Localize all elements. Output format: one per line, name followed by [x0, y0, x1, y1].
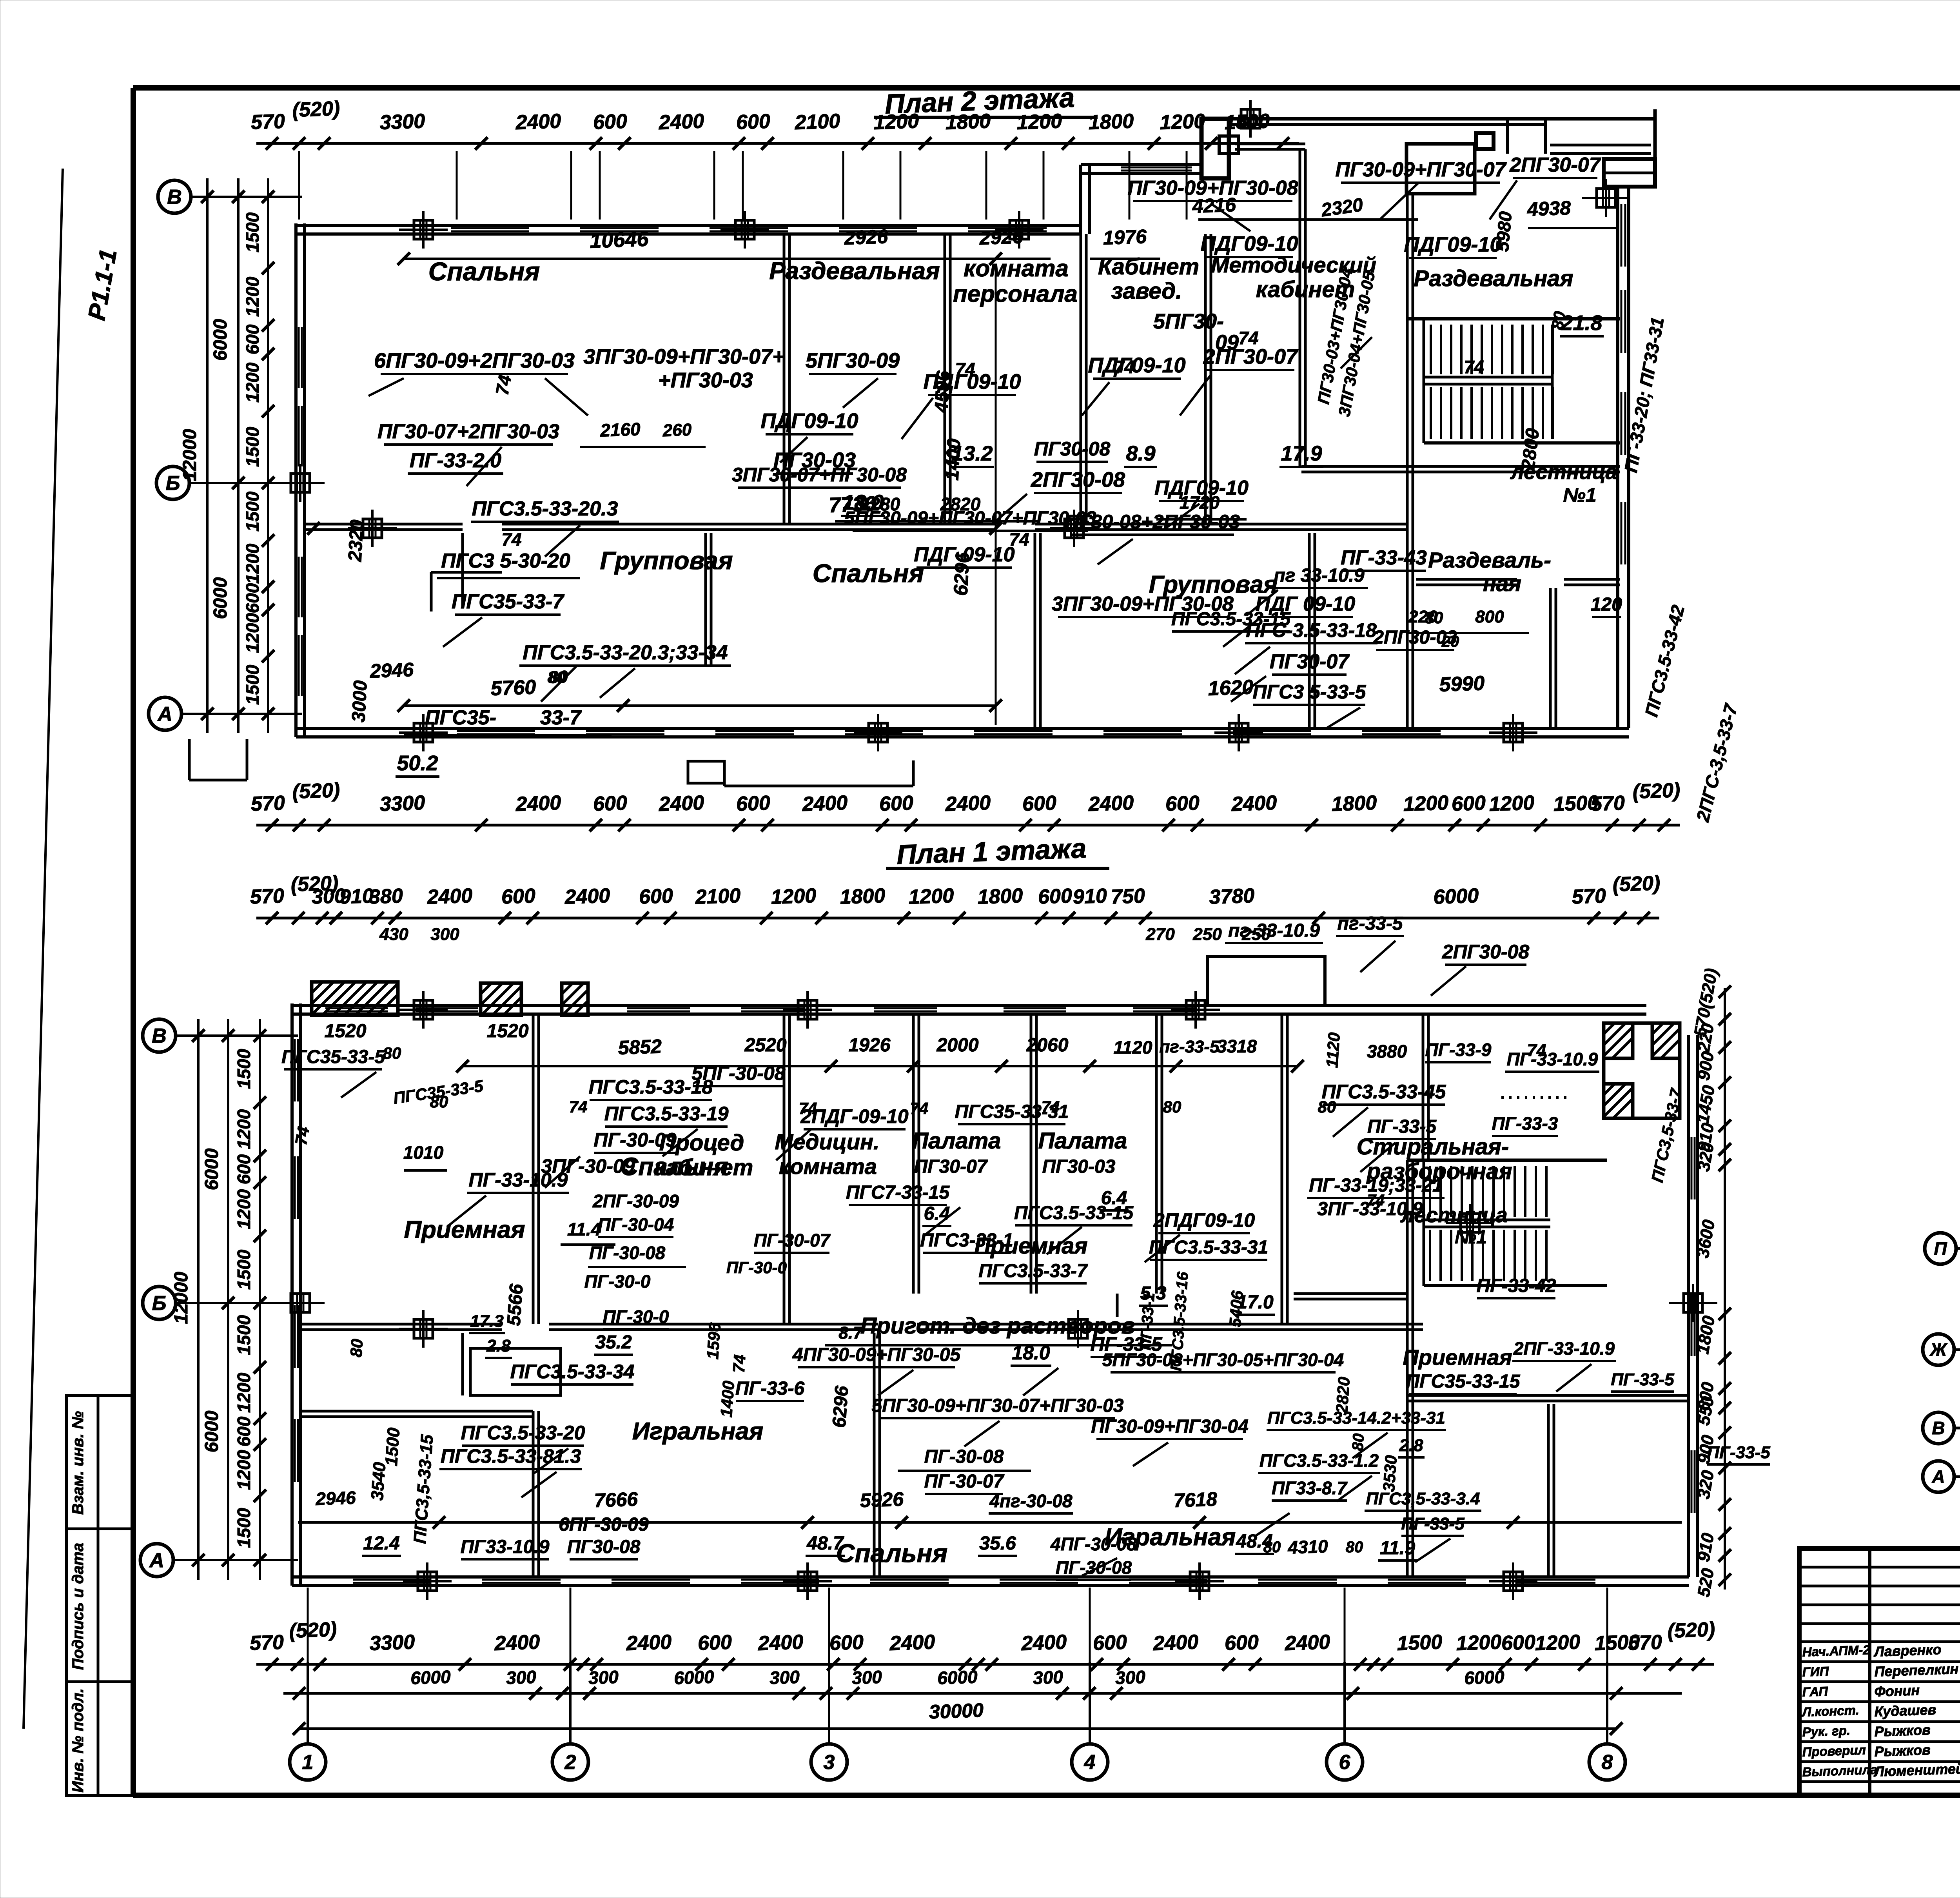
svg-text:1976: 1976 — [1103, 225, 1147, 249]
svg-text:1800: 1800 — [1088, 110, 1134, 134]
svg-text:ПГС35-33-5: ПГС35-33-5 — [281, 1047, 385, 1067]
svg-text:1500: 1500 — [242, 212, 263, 252]
svg-text:ПГС3.5-33-20: ПГС3.5-33-20 — [461, 1422, 585, 1444]
svg-text:20: 20 — [1441, 633, 1459, 650]
svg-text:ПГ-30-08: ПГ-30-08 — [924, 1446, 1004, 1467]
svg-text:Кабинет: Кабинет — [1098, 254, 1199, 279]
svg-text:4938: 4938 — [1526, 197, 1571, 220]
svg-text:ПГ-30-07: ПГ-30-07 — [754, 1230, 831, 1250]
svg-text:1500: 1500 — [242, 426, 263, 467]
svg-text:3ПГ30-07+ПГ30-08: 3ПГ30-07+ПГ30-08 — [732, 464, 907, 486]
svg-text:ная: ная — [1483, 571, 1521, 596]
svg-text:600: 600 — [593, 110, 628, 134]
svg-text:2400: 2400 — [1284, 1631, 1331, 1655]
svg-text:ПГС3.5-33-14.2+33-31: ПГС3.5-33-14.2+33-31 — [1267, 1408, 1445, 1428]
svg-text:5926: 5926 — [860, 1488, 904, 1512]
svg-text:35.2: 35.2 — [595, 1332, 632, 1353]
svg-text:ПГ-30-08: ПГ-30-08 — [1056, 1557, 1132, 1578]
svg-text:250: 250 — [1192, 925, 1222, 944]
svg-text:В: В — [167, 186, 182, 209]
svg-text:ПГ30-07: ПГ30-07 — [914, 1156, 988, 1177]
svg-text:1120: 1120 — [1114, 1037, 1152, 1058]
svg-text:600: 600 — [1165, 792, 1200, 816]
svg-text:13.2: 13.2 — [951, 442, 993, 465]
svg-text:6.4: 6.4 — [924, 1203, 950, 1224]
svg-text:1400: 1400 — [717, 1380, 738, 1418]
svg-text:5ПГ30-: 5ПГ30- — [1153, 310, 1224, 333]
svg-text:ПГ-33-5: ПГ-33-5 — [1611, 1370, 1674, 1389]
svg-text:2100: 2100 — [794, 110, 841, 134]
svg-text:ПГС3.5-33-81.3: ПГС3.5-33-81.3 — [441, 1445, 581, 1467]
svg-text:2400: 2400 — [1021, 1631, 1067, 1655]
svg-text:4ПГ30-09+ПГ30-05: 4ПГ30-09+ПГ30-05 — [792, 1345, 961, 1365]
svg-text:570: 570 — [250, 885, 285, 909]
svg-text:74: 74 — [492, 374, 515, 397]
svg-text:910: 910 — [1073, 885, 1107, 909]
svg-text:Нач.АПМ-2: Нач.АПМ-2 — [1802, 1642, 1871, 1659]
svg-text:12000: 12000 — [180, 429, 200, 481]
svg-text:2400: 2400 — [1231, 791, 1278, 816]
svg-text:1200: 1200 — [1016, 110, 1063, 134]
svg-text:ПГ-30-07: ПГ-30-07 — [924, 1471, 1005, 1492]
svg-text:2400: 2400 — [494, 1631, 541, 1655]
svg-text:Приемная: Приемная — [1403, 1345, 1512, 1370]
svg-text:2400: 2400 — [757, 1631, 804, 1655]
svg-text:Люменштейн: Люменштейн — [1873, 1760, 1960, 1780]
svg-text:750: 750 — [1111, 885, 1145, 909]
svg-text:3880: 3880 — [1367, 1041, 1407, 1062]
svg-text:6.4: 6.4 — [1101, 1188, 1127, 1208]
svg-text:6000: 6000 — [410, 1666, 451, 1688]
svg-text:1720: 1720 — [1180, 492, 1220, 513]
svg-text:2400: 2400 — [802, 791, 848, 816]
svg-text:2000: 2000 — [936, 1035, 979, 1056]
svg-text:1200: 1200 — [234, 1450, 254, 1490]
svg-text:600: 600 — [829, 1631, 864, 1655]
svg-text:(520): (520) — [1632, 779, 1681, 803]
svg-text:пг-33-5: пг-33-5 — [1338, 913, 1403, 934]
svg-text:Ж: Ж — [1929, 1339, 1948, 1360]
svg-text:1200: 1200 — [1456, 1631, 1502, 1655]
svg-text:ПГ-30-0: ПГ-30-0 — [584, 1271, 651, 1292]
svg-text:пг-33-10.9: пг-33-10.9 — [1228, 920, 1320, 941]
svg-text:600: 600 — [234, 1154, 254, 1184]
svg-text:А: А — [1931, 1466, 1945, 1487]
svg-text:3300: 3300 — [369, 1631, 416, 1655]
svg-text:ПГС3 5-30-20: ПГС3 5-30-20 — [441, 550, 570, 572]
svg-text:1520: 1520 — [325, 1021, 367, 1042]
svg-text:8.7: 8.7 — [838, 1323, 864, 1343]
svg-text:33-7: 33-7 — [540, 706, 582, 729]
svg-text:4пг-30-08: 4пг-30-08 — [989, 1491, 1073, 1511]
svg-text:1200: 1200 — [1489, 791, 1535, 816]
svg-text:2400: 2400 — [658, 791, 705, 816]
svg-text:ПГ30-09+ПГ30-04: ПГ30-09+ПГ30-04 — [1091, 1416, 1249, 1437]
svg-text:74: 74 — [1009, 529, 1029, 550]
svg-text:ПГС35-33-7: ПГС35-33-7 — [452, 590, 564, 613]
svg-text:600: 600 — [1022, 792, 1057, 816]
svg-text:Спальня: Спальня — [836, 1539, 947, 1568]
svg-text:Приемная: Приемная — [404, 1216, 525, 1243]
svg-text:ПГ-30-09: ПГ-30-09 — [593, 1129, 676, 1151]
svg-text:2.8: 2.8 — [1399, 1436, 1423, 1455]
svg-text:Проверил: Проверил — [1802, 1742, 1866, 1759]
svg-text:270: 270 — [1145, 925, 1175, 944]
svg-text:ПГ-33-5: ПГ-33-5 — [1707, 1443, 1770, 1462]
svg-text:12000: 12000 — [171, 1272, 192, 1324]
svg-text:Взам. инв. №: Взам. инв. № — [69, 1411, 87, 1515]
svg-text:1500: 1500 — [1397, 1631, 1443, 1655]
svg-text:Рыжков: Рыжков — [1874, 1742, 1931, 1760]
svg-text:5ПГ30-09+ПГ30-07+ПГ30-03: 5ПГ30-09+ПГ30-07+ПГ30-03 — [844, 508, 1096, 529]
svg-text:3ПГ30-09+ПГ30-07+: 3ПГ30-09+ПГ30-07+ — [583, 345, 784, 368]
svg-text:1200: 1200 — [873, 110, 920, 134]
svg-text:1200: 1200 — [242, 613, 263, 653]
svg-text:6000: 6000 — [201, 1148, 222, 1190]
svg-text:74: 74 — [569, 1098, 588, 1116]
svg-text:ПДГ09-10: ПДГ09-10 — [1088, 354, 1185, 377]
svg-text:600: 600 — [234, 1416, 254, 1446]
svg-text:2400: 2400 — [626, 1631, 672, 1655]
svg-text:6296: 6296 — [829, 1385, 852, 1429]
svg-text:ПГС3.5-33-20.3;33-34: ПГС3.5-33-20.3;33-34 — [523, 641, 728, 664]
svg-text:300: 300 — [588, 1667, 619, 1688]
svg-text:ПГ-30-04: ПГ-30-04 — [598, 1214, 674, 1235]
svg-text:74: 74 — [955, 359, 975, 379]
svg-text:пг-33-5: пг-33-5 — [1159, 1037, 1220, 1056]
svg-text:ПГС3.5-33-15: ПГС3.5-33-15 — [1171, 609, 1291, 630]
svg-text:6000: 6000 — [1433, 884, 1479, 909]
svg-text:600: 600 — [593, 792, 628, 816]
svg-text:5406: 5406 — [1226, 1290, 1247, 1328]
svg-text:ПГС35-33-15: ПГС35-33-15 — [1406, 1371, 1521, 1392]
svg-text:430: 430 — [379, 925, 408, 944]
svg-text:2400: 2400 — [1088, 791, 1134, 816]
svg-text:2.8: 2.8 — [486, 1336, 511, 1355]
svg-text:2400: 2400 — [515, 791, 562, 816]
svg-text:1200: 1200 — [234, 1372, 254, 1413]
svg-text:600: 600 — [879, 792, 914, 816]
svg-text:Спальня: Спальня — [428, 257, 540, 286]
svg-text:570: 570 — [1628, 1631, 1662, 1655]
svg-text:5852: 5852 — [618, 1035, 662, 1059]
svg-text:1200: 1200 — [242, 362, 263, 403]
svg-text:комната: комната — [964, 255, 1069, 281]
svg-text:600: 600 — [736, 792, 771, 816]
svg-text:ПГ30-03: ПГ30-03 — [1042, 1156, 1116, 1177]
svg-text:11.9: 11.9 — [1380, 1538, 1415, 1559]
svg-text:74: 74 — [799, 1099, 817, 1118]
svg-text:Раздевальная: Раздевальная — [1414, 266, 1573, 291]
svg-text:8: 8 — [1602, 1751, 1613, 1774]
svg-text:ПДГ-09-10: ПДГ-09-10 — [914, 543, 1014, 566]
svg-text:600: 600 — [1224, 1631, 1259, 1655]
svg-text:18.0: 18.0 — [1012, 1342, 1050, 1364]
svg-text:2ПДГ09-10: 2ПДГ09-10 — [1153, 1209, 1255, 1231]
svg-text:74: 74 — [1042, 1098, 1060, 1116]
svg-text:Выполнила: Выполнила — [1802, 1762, 1878, 1779]
svg-text:6: 6 — [1339, 1751, 1351, 1774]
svg-text:Б: Б — [152, 1292, 167, 1315]
svg-text:Игральная: Игральная — [632, 1418, 764, 1445]
svg-text:2ПГ30-07: 2ПГ30-07 — [1203, 345, 1299, 368]
svg-text:ПГ30-09+ПГ30-07: ПГ30-09+ПГ30-07 — [1336, 158, 1507, 181]
svg-text:1120: 1120 — [1323, 1032, 1343, 1068]
svg-text:1596: 1596 — [703, 1322, 724, 1360]
svg-text:6000: 6000 — [937, 1666, 978, 1688]
svg-text:ПГ-33-3: ПГ-33-3 — [1492, 1113, 1558, 1134]
svg-text:1200: 1200 — [234, 1189, 254, 1229]
svg-text:ПГС3,5-33-3.4: ПГС3,5-33-3.4 — [1366, 1489, 1480, 1508]
svg-text:ПГС35-: ПГС35- — [425, 706, 496, 729]
svg-text:600: 600 — [242, 583, 263, 613]
svg-text:2400: 2400 — [889, 1631, 936, 1655]
svg-text:П: П — [1934, 1238, 1947, 1259]
svg-text:2520: 2520 — [744, 1035, 787, 1056]
svg-text:3318: 3318 — [1217, 1036, 1257, 1056]
svg-text:А: А — [149, 1549, 164, 1572]
svg-text:300: 300 — [1115, 1667, 1146, 1688]
svg-text:5ПГ30-08+ПГ30-05+ПГ30-04: 5ПГ30-08+ПГ30-05+ПГ30-04 — [1102, 1350, 1344, 1370]
svg-text:600: 600 — [1501, 1631, 1536, 1655]
svg-text:Лавренко: Лавренко — [1873, 1641, 1942, 1660]
svg-text:6ПГ30-09+2ПГ30-03: 6ПГ30-09+2ПГ30-03 — [374, 349, 575, 372]
svg-text:7618: 7618 — [1173, 1488, 1218, 1512]
svg-text:2400: 2400 — [945, 791, 991, 816]
svg-text:ПГС3.5-33-31: ПГС3.5-33-31 — [1149, 1237, 1268, 1258]
svg-text:300: 300 — [506, 1667, 537, 1688]
svg-text:персонала: персонала — [953, 281, 1078, 307]
svg-text:4310: 4310 — [1287, 1536, 1328, 1558]
svg-text:1200: 1200 — [771, 884, 817, 909]
svg-text:2160: 2160 — [599, 419, 641, 441]
svg-text:600: 600 — [697, 1631, 732, 1655]
svg-text:1: 1 — [302, 1751, 314, 1774]
svg-text:5ПГ30-09+ПГ30-07+ПГ30-03: 5ПГ30-09+ПГ30-07+ПГ30-03 — [871, 1395, 1123, 1416]
svg-text:ПГ-33-6: ПГ-33-6 — [735, 1378, 804, 1399]
svg-text:4: 4 — [1084, 1751, 1096, 1774]
svg-text:74: 74 — [1367, 1192, 1385, 1209]
svg-text:Фонин: Фонин — [1874, 1682, 1920, 1700]
svg-text:600: 600 — [501, 885, 536, 909]
svg-text:220: 220 — [1408, 607, 1437, 626]
svg-text:завед.: завед. — [1111, 278, 1182, 304]
svg-text:48.4: 48.4 — [1236, 1531, 1272, 1552]
svg-text:1500: 1500 — [234, 1508, 254, 1548]
svg-text:ПГ-33-5: ПГ-33-5 — [1367, 1116, 1437, 1137]
svg-text:570: 570 — [1590, 792, 1625, 816]
svg-text:ПГ30-08: ПГ30-08 — [567, 1537, 641, 1557]
svg-text:Рыжков: Рыжков — [1874, 1722, 1931, 1740]
svg-text:+ПГ30-03: +ПГ30-03 — [658, 368, 753, 392]
svg-text:6000: 6000 — [201, 1410, 222, 1452]
svg-text:ПГС7-33-15: ПГС7-33-15 — [846, 1182, 950, 1203]
svg-text:ПДГ09-10: ПДГ09-10 — [1200, 232, 1298, 256]
svg-text:80: 80 — [1346, 1539, 1363, 1556]
svg-text:1800: 1800 — [1331, 791, 1377, 816]
svg-text:2400: 2400 — [658, 110, 705, 134]
svg-text:80: 80 — [1548, 310, 1569, 331]
svg-text:600: 600 — [242, 324, 263, 354]
svg-text:800: 800 — [1475, 607, 1504, 626]
svg-text:ПГС3.5-33-34: ПГС3.5-33-34 — [510, 1361, 635, 1383]
svg-text:ПГ30-09+ПГ30-08: ПГ30-09+ПГ30-08 — [1128, 177, 1298, 200]
svg-text:2ПГ30-08: 2ПГ30-08 — [1442, 941, 1530, 963]
svg-text:ПГ-30-0: ПГ-30-0 — [726, 1258, 787, 1277]
svg-text:80: 80 — [548, 668, 566, 686]
svg-text:1500: 1500 — [234, 1249, 254, 1290]
svg-text:74: 74 — [1238, 328, 1258, 348]
svg-text:ПГ-33-10.9: ПГ-33-10.9 — [1507, 1049, 1598, 1069]
svg-text:(520): (520) — [292, 97, 340, 122]
svg-text:Спальня: Спальня — [813, 559, 924, 588]
svg-text:1500: 1500 — [382, 1427, 404, 1467]
svg-text:2100: 2100 — [695, 884, 741, 909]
svg-text:48.7: 48.7 — [806, 1533, 844, 1554]
svg-text:1200: 1200 — [908, 884, 955, 909]
svg-text:Раздеваль-: Раздеваль- — [1428, 548, 1551, 572]
svg-text:380: 380 — [368, 885, 403, 909]
svg-text:ПГС3.5-33-19: ПГС3.5-33-19 — [604, 1103, 729, 1125]
svg-text:1500: 1500 — [234, 1315, 254, 1355]
svg-text:Кудашев: Кудашев — [1874, 1702, 1936, 1720]
svg-text:ПДГ09-10: ПДГ09-10 — [760, 409, 858, 433]
svg-text:2926: 2926 — [844, 225, 889, 249]
svg-text:ПГС3.5-33-45: ПГС3.5-33-45 — [1322, 1081, 1446, 1103]
svg-text:35.6: 35.6 — [979, 1533, 1016, 1554]
svg-text:ПГ-30-0: ПГ-30-0 — [603, 1306, 669, 1327]
svg-text:ПГ-33-2.0: ПГ-33-2.0 — [410, 449, 501, 472]
svg-text:1200: 1200 — [1403, 791, 1449, 816]
svg-text:ПГ30-07: ПГ30-07 — [1270, 650, 1350, 673]
svg-text:3540: 3540 — [368, 1461, 390, 1501]
svg-text:5760: 5760 — [490, 676, 537, 700]
svg-text:570: 570 — [1572, 885, 1606, 909]
svg-text:1010: 1010 — [403, 1142, 444, 1163]
svg-text:3000: 3000 — [348, 680, 371, 723]
svg-text:1200: 1200 — [234, 1109, 254, 1149]
svg-text:6000: 6000 — [210, 319, 231, 361]
svg-text:ПГ-33-43: ПГ-33-43 — [1341, 546, 1427, 569]
svg-text:ПГ-33-5: ПГ-33-5 — [1401, 1514, 1465, 1533]
svg-text:80: 80 — [383, 1044, 401, 1062]
svg-text:Л.конст.: Л.конст. — [1801, 1703, 1859, 1719]
svg-text:7666: 7666 — [594, 1488, 639, 1512]
svg-text:17.3: 17.3 — [470, 1312, 504, 1331]
svg-text:300: 300 — [769, 1667, 800, 1688]
svg-text:10646: 10646 — [589, 227, 649, 252]
svg-text:2ПГ30-07: 2ПГ30-07 — [1509, 154, 1601, 176]
svg-text:1200: 1200 — [242, 543, 263, 584]
svg-text:2ПГ-30-09: 2ПГ-30-09 — [592, 1191, 679, 1211]
svg-text:ПГ30-07+2ПГ30-03: ПГ30-07+2ПГ30-03 — [377, 420, 559, 443]
svg-text:300: 300 — [1033, 1667, 1063, 1688]
svg-text:74: 74 — [292, 1125, 313, 1146]
svg-text:300: 300 — [430, 925, 459, 944]
svg-text:Перепелкин: Перепелкин — [1874, 1661, 1959, 1680]
svg-text:Медицин.: Медицин. — [775, 1129, 879, 1154]
svg-text:1800: 1800 — [945, 110, 991, 134]
svg-text:11.4: 11.4 — [567, 1219, 601, 1239]
svg-text:5566: 5566 — [503, 1283, 527, 1327]
svg-text:ПДГ09-10: ПДГ09-10 — [1404, 233, 1501, 256]
svg-text:74: 74 — [501, 529, 521, 550]
svg-text:Раздевальная: Раздевальная — [769, 258, 940, 285]
svg-text:1800: 1800 — [977, 884, 1024, 909]
svg-text:6000: 6000 — [1464, 1666, 1505, 1688]
svg-text:74: 74 — [729, 1354, 749, 1374]
svg-text:17.9: 17.9 — [1281, 442, 1322, 465]
svg-text:6ПГ-30-09: 6ПГ-30-09 — [559, 1514, 649, 1535]
svg-text:ПГ33-8.7: ПГ33-8.7 — [1272, 1478, 1348, 1498]
svg-text:74: 74 — [910, 1099, 929, 1118]
svg-text:Палата: Палата — [912, 1128, 1001, 1154]
svg-text:5990: 5990 — [1439, 672, 1485, 696]
svg-text:30000: 30000 — [929, 1699, 984, 1723]
svg-text:ПГ33-10.9: ПГ33-10.9 — [461, 1537, 550, 1557]
svg-text:80: 80 — [347, 1338, 366, 1358]
svg-text:600: 600 — [1093, 1631, 1127, 1655]
svg-text:3: 3 — [824, 1751, 835, 1774]
svg-text:комната: комната — [779, 1154, 877, 1179]
svg-text:5ПГ30-09: 5ПГ30-09 — [806, 349, 900, 372]
svg-text:260: 260 — [662, 420, 692, 441]
svg-text:Инв. № подл.: Инв. № подл. — [69, 1688, 87, 1793]
svg-text:80: 80 — [1163, 1098, 1181, 1116]
svg-text:570: 570 — [250, 792, 285, 816]
svg-text:50.2: 50.2 — [397, 751, 438, 775]
svg-text:Подпись и дата: Подпись и дата — [69, 1543, 87, 1670]
svg-text:3530: 3530 — [1379, 1455, 1400, 1492]
svg-text:1800: 1800 — [840, 884, 886, 909]
svg-text:1200: 1200 — [1535, 1631, 1581, 1655]
svg-text:В: В — [1932, 1418, 1945, 1438]
svg-text:6000: 6000 — [673, 1666, 715, 1688]
svg-text:1500: 1500 — [242, 491, 263, 532]
svg-text:1500: 1500 — [234, 1049, 254, 1089]
svg-text:(520): (520) — [1612, 872, 1661, 896]
svg-text:ПГ-33-42: ПГ-33-42 — [1477, 1276, 1556, 1296]
svg-text:ПГ-33-9: ПГ-33-9 — [1425, 1040, 1492, 1060]
svg-text:ПГС3.5-33-7: ПГС3.5-33-7 — [978, 1261, 1088, 1281]
svg-text:ПГС3 5-33-5: ПГС3 5-33-5 — [1253, 681, 1367, 703]
svg-text:(520): (520) — [292, 779, 340, 803]
svg-text:В: В — [152, 1025, 167, 1047]
svg-text:2946: 2946 — [315, 1487, 356, 1509]
svg-text:Групповая: Групповая — [600, 546, 733, 575]
svg-text:2946: 2946 — [369, 659, 414, 682]
svg-text:8.9: 8.9 — [1126, 442, 1155, 465]
svg-text:ПГС3-33-1: ПГС3-33-1 — [920, 1230, 1013, 1251]
svg-text:570: 570 — [250, 110, 285, 134]
svg-text:12.4: 12.4 — [363, 1533, 399, 1554]
svg-text:2820: 2820 — [1332, 1376, 1353, 1414]
svg-text:300: 300 — [851, 1667, 882, 1688]
svg-text:1926: 1926 — [849, 1035, 891, 1056]
svg-text:6000: 6000 — [210, 577, 231, 619]
svg-text:80: 80 — [1318, 1098, 1336, 1116]
svg-text:600: 600 — [1038, 885, 1073, 909]
svg-text:4ПГ-30-08: 4ПГ-30-08 — [1050, 1534, 1137, 1554]
svg-text:А: А — [157, 703, 172, 726]
svg-text:1500: 1500 — [242, 664, 263, 705]
svg-text:74: 74 — [1114, 357, 1134, 377]
svg-text:1200: 1200 — [1160, 110, 1206, 134]
svg-text:ГАП: ГАП — [1802, 1684, 1829, 1699]
svg-text:(520): (520) — [1667, 1618, 1715, 1642]
svg-text:600: 600 — [639, 885, 673, 909]
svg-text:№1: №1 — [1563, 484, 1596, 506]
